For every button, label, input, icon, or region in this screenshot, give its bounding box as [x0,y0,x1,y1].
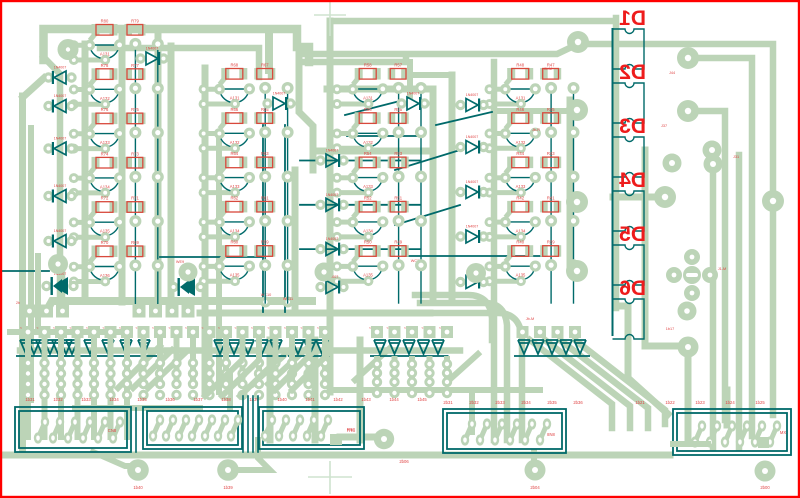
wire B5 plate-p1 link [220,255,226,262]
pad C3 p2 [377,172,388,183]
pad B4 p1 [214,217,225,228]
wire nested corner [100,48,259,77]
pad F19a [320,358,330,368]
pad CN5-1b [691,436,699,447]
pad CN1-6a [116,416,124,427]
pad CN1-3a [71,416,79,427]
svg-text:<: < [268,326,270,330]
wire C1 p3 drop [398,93,400,127]
pad F16b2 [270,390,280,400]
wire D1 p4 drop [573,93,575,127]
LED D6 outline [613,299,645,339]
svg-text:<: < [301,326,303,330]
pad B1 p3 [259,82,271,94]
svg-text:D4: D4 [619,169,646,192]
inductor arc C2 [353,134,382,147]
pad S13 [220,326,232,338]
svg-text:2b35: 2b35 [547,400,557,405]
svg-text:<: < [70,326,72,330]
pad CN4-4a [513,418,521,429]
inductor arc C3 [353,179,382,192]
wire D5 plate-p1 link [506,255,512,262]
pad CN4-2a [483,418,491,429]
wire y350 band [20,347,460,354]
pad CN2-4a [195,414,203,425]
resistor R69 outline [127,246,143,257]
pad F3b2 [56,390,66,400]
pad DL3 anode [43,143,53,153]
pad CN3-1b [261,430,269,441]
wire T6 underline [514,355,590,357]
pad A4 p5 [100,188,110,198]
pad C1 p1 [347,84,358,95]
svg-text:<: < [152,326,154,330]
pad D4 p5 [516,232,526,242]
diode DL3 [54,142,66,155]
pad B5 p1 [214,261,225,272]
pad S12 [204,326,216,338]
pad CN5-4a [743,420,751,431]
pad F9b [155,379,165,389]
wire x58 vertical [44,57,61,298]
wire y151 horizontal [320,148,433,155]
diode DM9 [326,281,338,294]
resistor R74 pads [92,157,100,169]
pad Jb-M1 [566,191,588,213]
diode DM6 [326,154,338,167]
inductor arc D2 [506,134,535,147]
wire x433 vertical [430,92,437,300]
wire C5 bottom stub [337,279,368,284]
pad DM10 cathode [419,98,429,108]
svg-text:1b34: 1b34 [109,397,119,402]
pad F14b2 [237,390,247,400]
svg-text:<: < [369,326,371,330]
pad B5 p3 [259,259,271,271]
pad F3a2 [56,368,66,378]
resistor R77 outline [127,69,143,80]
wire C3 p4 drop [420,181,422,215]
pad CN5 square [758,437,769,448]
pad F8a2 [138,368,148,378]
pad F10b [171,379,181,389]
pad F14b [237,379,247,389]
pad N4b [424,377,434,387]
wire CN4-2 link [480,424,487,440]
pad S6 [105,326,117,338]
wire diag bl2 [133,350,172,388]
pad D3 p1 [500,172,511,183]
wire box5 feeds a [469,390,475,432]
pad H7 [182,305,195,318]
svg-text:1b43: 1b43 [361,397,371,402]
pad CN2-7a [234,414,242,425]
wire C3 plate-p1 link [353,166,359,173]
svg-text:R46: R46 [516,107,524,112]
wire x330 vertical [327,21,334,392]
transistor array T5 [374,340,444,354]
svg-text:D5: D5 [619,223,646,246]
pad D3 p4 [568,171,580,183]
pad CN3-1a [268,414,276,425]
net diag 2 [345,101,400,115]
svg-text:R56: R56 [364,107,372,112]
wire CN3-3 link [293,420,300,436]
wire CN1-5 link [98,422,105,438]
wire C4 pad link [353,221,383,223]
wire CN3-2 link [279,420,286,436]
resistor R67 pads [254,68,261,80]
pad F11a [188,358,198,368]
pad A3 p3 [129,127,141,139]
resistor R59 pads [254,245,261,257]
svg-text:<: < [103,326,105,330]
pad DR12 anode [455,187,465,197]
wire diag mid4 [447,354,478,382]
wire D5 bottom stub [490,279,521,284]
pad A1 p5 [100,55,110,65]
wire B1 plate-p1 link [220,78,226,85]
svg-text:R63: R63 [261,151,269,156]
svg-text:1b23: 1b23 [695,400,705,405]
wire diag mid1 [253,350,290,384]
pad CN2-6a [221,414,229,425]
pad N4b2 [424,388,434,398]
wire CN5-5 link [755,426,762,442]
net diag 5 [395,205,460,225]
resistor R78 outline [96,69,113,80]
svg-text:<: < [317,326,319,330]
svg-text:WE9: WE9 [176,260,184,264]
net vertical WC11 [284,125,286,312]
wire right v5 [724,390,731,425]
resistor R80 outline [96,25,113,36]
wire F12 drop [207,338,213,384]
pad DL7 cathode [195,282,205,292]
svg-text:1N4007: 1N4007 [466,180,479,184]
pad D1 p5 [516,99,526,109]
wire A3 bottom stub [74,146,105,151]
svg-text:1N4007: 1N4007 [466,135,479,139]
resistor R49 pads [388,245,396,257]
svg-text:R51: R51 [394,195,402,200]
svg-text:<: < [404,326,406,330]
pad C5 p6 [332,276,342,286]
pad D1 p0 [485,84,495,94]
inductor arc B3 [220,179,249,192]
pad F18b2 [303,390,313,400]
svg-text:D1: D1 [619,7,646,30]
pad D4 p4 [568,215,580,227]
net horizontal left [0,270,49,272]
wire D3 p3 drop [550,181,552,215]
pad S18 [303,326,315,338]
pad C4 p0 [332,217,342,227]
wire CN5-6 link [770,426,777,442]
wire D2 bottom stub [490,146,521,151]
wire A2 bottom stub [74,102,105,107]
pad DL6 anode [41,281,51,291]
pad CN2-6b [214,430,222,441]
pad N5a [442,359,452,369]
pad C3 p3 [393,171,405,183]
svg-text:<: < [169,326,171,330]
pad D1 p6 [485,99,495,109]
pad B3 p3 [259,171,271,183]
net cluster v1 [242,396,244,452]
pad B3 p5 [230,188,240,198]
wire B5 p4 drop [287,270,289,304]
pad J2-M [567,31,589,53]
pad F17a2 [287,368,297,378]
wire A2 plate-p1 link [90,78,96,85]
pad DR13 anode [455,231,465,241]
resistor R52 pads [355,201,363,213]
wire hub-band link [59,270,66,300]
wire D2 plate-p1 link [506,122,512,129]
pad DM9 cathode [338,282,348,292]
pad S5 [88,326,100,338]
wire F16 drop [273,338,279,384]
inductor arc C4 [353,223,382,236]
wire diag bl3 [148,352,186,388]
inductor arc B5 [220,267,249,280]
pad C2 p0 [332,129,342,139]
svg-text:R73: R73 [131,151,139,156]
pad F19a2 [320,368,330,378]
pad A4 p6 [69,188,79,198]
resistor R43 outline [543,157,559,168]
pad F17b [287,379,297,389]
pad F5a2 [89,368,99,378]
pad CN3-3b [289,430,297,441]
pad N1b2 [372,388,382,398]
pad F9a [155,358,165,368]
pad DM8 cathode [338,244,348,254]
resistor R61 pads [254,201,261,213]
resistor R40 outline [512,246,529,257]
svg-text:R48: R48 [516,63,524,68]
pad J6 [654,186,676,208]
net cluster v3 [252,396,254,452]
pad DM7 cathode [338,200,348,210]
wire CN4-6 link [540,424,547,440]
pad SG2 [534,326,546,338]
pad SG3 [552,326,564,338]
pad D3 p0 [485,173,495,183]
pad CN5-2b [706,436,714,447]
svg-text:<: < [119,326,121,330]
resistor R66 outline [226,113,243,124]
pad CN1-2a [56,416,64,427]
wire to via 1b39 [228,440,270,470]
wire A5 bottom stub [74,235,105,240]
via 2b06 [374,429,394,449]
pad A6 p4 [152,260,164,272]
pad CN3-4a [310,414,318,425]
svg-text:R53: R53 [394,151,402,156]
wire x205 vertical [202,68,209,392]
pad F8a [138,358,148,368]
svg-text:R68: R68 [230,63,238,68]
pad F16b [270,379,280,389]
hub pad C [315,263,334,282]
wire CN1-3 link [68,422,75,438]
transistor array T1 [20,340,72,354]
pad D2 p0 [485,129,495,139]
pad F3b [56,379,66,389]
pad B1 p0 [199,84,209,94]
pad B1 p5 [230,99,240,109]
pad A1 p6 [69,55,79,65]
pad CN3 square [330,434,342,445]
svg-text:<: < [422,326,424,330]
resistor R76 outline [96,113,113,124]
pad B4 p4 [282,215,294,227]
inductor arc A2 [90,90,119,103]
pad N2b [389,377,399,387]
svg-text:1N4007: 1N4007 [146,47,159,51]
svg-text:1b24: 1b24 [725,400,735,405]
resistor R79 pads [125,24,133,36]
resistor R39 outline [543,246,559,257]
pad C5 p3 [393,259,405,271]
pad F12b2 [204,390,214,400]
resistor R71 outline [127,202,143,213]
wire N2 drop [392,356,398,382]
diode DM10 [407,97,419,110]
svg-text:Jb-R: Jb-R [532,128,540,132]
pad H3 [56,305,69,318]
wire A4 pad link [90,177,120,179]
pad D1 p3 [545,82,557,94]
resistor R66 pads [221,112,229,124]
diode DL7 (power) [180,278,195,296]
connector CN2 outline [143,407,242,449]
wire diag bs1 [205,362,240,396]
wire A4 plate-p1 link [90,166,96,173]
pad F14a [237,358,247,368]
wire C5 p4 drop [420,270,422,304]
wire C1 p4 drop [420,93,422,127]
inductor arc D3 [506,179,535,192]
svg-text:<: < [387,326,389,330]
diode DL1 [54,71,66,84]
svg-text:D2: D2 [619,61,646,84]
pad F5a [89,358,99,368]
resistor R70 pads [92,246,100,258]
pad SR1 [371,326,383,338]
wire B2 p3 drop [264,137,266,171]
wire C2 p4 drop [420,137,422,171]
wire D5 left stub [490,264,506,269]
wire CN5-4 link [740,426,747,442]
pad B3 p6 [199,188,209,198]
resistor R57 pads [388,68,396,80]
svg-text:R44: R44 [516,151,524,156]
svg-text:R70: R70 [101,240,109,245]
svg-text:R71: R71 [131,196,139,201]
diode D-hub [146,52,158,65]
pad D3 p6 [485,188,495,198]
pad B1 p4 [282,82,294,94]
resistor R69 pads [125,246,133,258]
svg-text:J1-M: J1-M [718,267,726,271]
pad CN1-1b [34,432,42,443]
wire cn4 curve3 [415,295,492,340]
resistor R53 pads [388,157,396,169]
pad DL4 cathode [66,191,76,201]
pad B1 p1 [214,84,225,95]
wire x122 vertical [119,36,126,302]
connector CN5 outline [673,409,791,455]
wire diag mid2 [268,350,305,384]
pad D1 p4 [568,82,580,94]
LED D5 outline [613,245,645,285]
wire rail continuation [616,306,668,414]
pad CN4-1a [468,418,476,429]
pad DL2 anode [43,101,53,111]
pad D1 p1 [500,84,511,95]
pad F10a [171,358,181,368]
svg-text:2b04: 2b04 [530,485,540,490]
svg-text:2b00: 2b00 [760,485,770,490]
pad DR10 anode [455,100,465,110]
resistor R47 pads [540,68,548,80]
wire C2 plate-p1 link [353,122,359,129]
svg-text:R41: R41 [547,195,555,200]
wire bottom band2 [75,405,200,411]
pad DR14 cathode [478,277,488,287]
pad CN1-4a [86,416,94,427]
svg-text:1N4007: 1N4007 [54,94,67,98]
wire D3 bottom stub [490,190,521,195]
svg-text:2b32: 2b32 [469,400,479,405]
pad CN3-3a [296,414,304,425]
pad H4 [133,305,146,318]
svg-text:R59: R59 [261,240,269,245]
wire diag bs3 [240,362,275,396]
pad A1 p1 [84,40,95,51]
wire F13 drop [223,338,229,384]
resistor R42 pads [507,201,515,213]
wire A5 p4 drop [157,226,159,260]
pad D2 p1 [500,128,511,139]
wire F10 drop [174,338,180,384]
wire C2 bottom stub [337,146,368,151]
pad B3 p4 [282,171,294,183]
pad DM9 cathode [285,98,295,108]
pad A2 p2 [114,84,125,95]
svg-text:1b44: 1b44 [389,397,399,402]
hub pad A [48,254,68,274]
pad F1a2 [23,368,33,378]
pad F6a2 [105,368,115,378]
pad C1 p0 [332,84,342,94]
wire right v3 [710,170,717,448]
svg-text:1b40: 1b40 [133,485,143,490]
pad CN1-6b [109,432,117,443]
pad A1 p2 [114,39,125,50]
pad F11a2 [188,368,198,378]
wire B1 left stub [204,87,220,92]
diode DR12 [466,186,478,199]
pad B5 p5 [230,276,240,286]
wire A1 p4 drop [157,49,159,83]
svg-text:R72: R72 [101,196,109,201]
wire C4 bottom stub [337,234,368,239]
pad A6 p1 [84,261,95,272]
